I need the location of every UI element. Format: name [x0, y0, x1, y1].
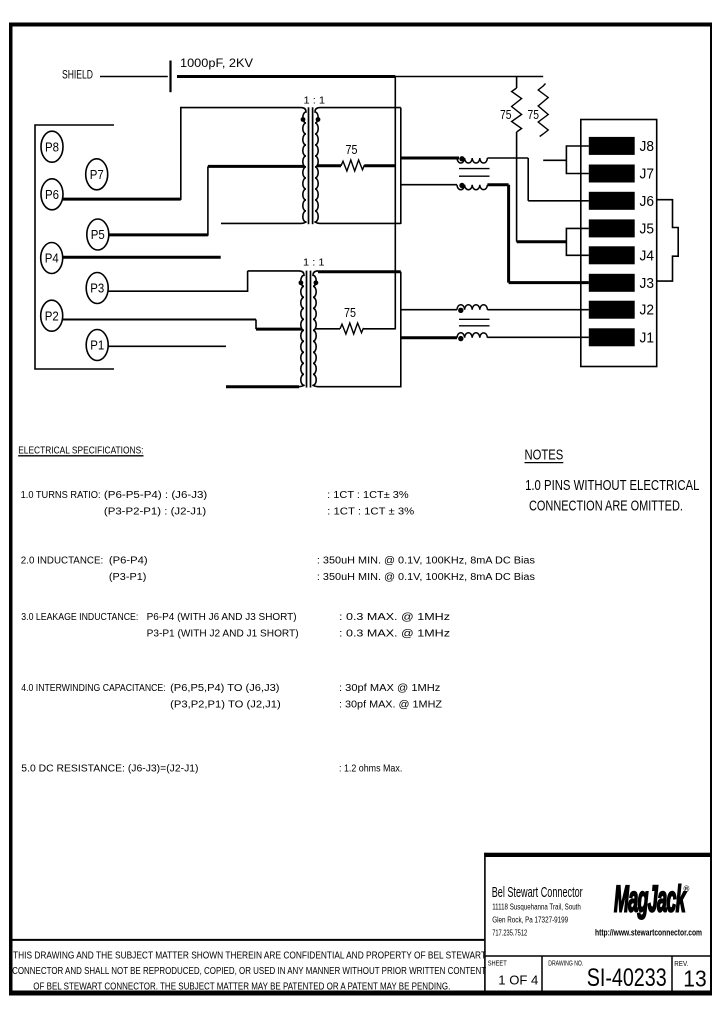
wire from SHIELD label	[100, 76, 168, 78]
svg-text:NOTES: NOTES	[525, 447, 564, 464]
resistor R3 75 ohm	[512, 88, 522, 132]
cable bracket around P pins	[35, 125, 114, 369]
svg-text:Bel Stewart Connector: Bel Stewart Connector	[492, 884, 583, 901]
svg-text:DRAWING NO.: DRAWING NO.	[548, 961, 583, 968]
label 1000pF 2KV	[180, 56, 253, 70]
wire P1 stub	[108, 345, 226, 347]
svg-text:1 OF 4: 1 OF 4	[498, 973, 538, 988]
svg-text:: 350uH MIN. @ 0.1V, 100KHz, 8: : 350uH MIN. @ 0.1V, 100KHz, 8mA DC Bias	[317, 556, 535, 567]
wire T1 loop to L1 bottom coil	[401, 184, 457, 186]
svg-text:SHIELD: SHIELD	[62, 68, 93, 82]
svg-text:1.0 TURNS RATIO:: 1.0 TURNS RATIO:	[21, 490, 101, 501]
svg-text:1 : 1: 1 : 1	[303, 257, 325, 269]
pin P6	[41, 179, 63, 210]
wire T1 center tap to R1	[317, 164, 341, 167]
svg-text:CONNECTION ARE OMITTED.: CONNECTION ARE OMITTED.	[529, 498, 683, 515]
wire T2 center tap to R2	[315, 328, 340, 330]
svg-text:P3: P3	[90, 281, 104, 296]
svg-text:ELECTRICAL SPECIFICATIONS:: ELECTRICAL SPECIFICATIONS:	[18, 445, 143, 457]
svg-text:P7: P7	[90, 167, 104, 182]
svg-text:J3: J3	[640, 276, 655, 292]
svg-text:: 30pf MAX. @ 1MHZ: : 30pf MAX. @ 1MHZ	[339, 700, 442, 711]
pin P3	[86, 273, 108, 304]
wire L2 top coil to J2	[487, 309, 588, 311]
svg-text:(P3,P2,P1) TO (J2,J1): (P3,P2,P1) TO (J2,J1)	[170, 700, 281, 711]
svg-text:SI-40233: SI-40233	[587, 964, 667, 992]
label R1 value 75	[346, 143, 358, 157]
pin J8	[589, 137, 654, 155]
svg-text:(P6,P5,P4) TO (J6,J3): (P6,P5,P4) TO (J6,J3)	[170, 683, 279, 694]
svg-text:P5: P5	[91, 227, 105, 242]
svg-text:75: 75	[528, 108, 540, 122]
resistor R4 75 ohm	[538, 84, 548, 137]
notes text	[525, 447, 700, 515]
wire shield vertical drop	[394, 77, 396, 329]
wire T1 loop to L1 top coil	[401, 157, 459, 160]
svg-text:13: 13	[683, 966, 706, 992]
svg-text:717.235.7512: 717.235.7512	[492, 929, 527, 938]
svg-text:SHEET: SHEET	[488, 961, 508, 968]
wire P3 to T2 primary top	[108, 271, 248, 292]
svg-text:P2: P2	[45, 308, 59, 323]
svg-text:(P3-P1): (P3-P1)	[109, 572, 146, 583]
pin P7	[86, 159, 108, 190]
choke L2 core	[459, 319, 490, 326]
choke L1 bottom coil	[457, 183, 487, 190]
pin P5	[87, 219, 109, 250]
wire P4 stub	[63, 256, 221, 259]
title block	[484, 853, 712, 995]
svg-text:THIS DRAWING AND THE SUBJECT M: THIS DRAWING AND THE SUBJECT MATTER SHOW…	[13, 950, 486, 961]
choke L2 top coil	[457, 305, 487, 313]
resistor R2 75 ohm	[340, 323, 363, 334]
svg-text:: 1CT : 1CT± 3%: : 1CT : 1CT± 3%	[327, 490, 409, 501]
choke L1 core	[459, 169, 490, 177]
svg-text:CONNECTOR AND SHALL NOT BE REP: CONNECTOR AND SHALL NOT BE REPRODUCED, C…	[12, 966, 486, 977]
svg-text:P3-P1 (WITH J2 AND J1 SHORT): P3-P1 (WITH J2 AND J1 SHORT)	[147, 629, 299, 640]
svg-text:3.0 LEAKAGE INDUCTANCE:: 3.0 LEAKAGE INDUCTANCE:	[21, 612, 138, 623]
svg-text:: 30pf MAX @ 1MHz: : 30pf MAX @ 1MHz	[339, 683, 440, 694]
pin J6	[589, 192, 654, 210]
wire P5 to T1 primary center tap	[108, 166, 304, 235]
choke L1 top coil	[457, 156, 487, 163]
svg-text:11118 Susquehanna Trail, South: 11118 Susquehanna Trail, South	[492, 903, 581, 912]
pin J1	[589, 328, 654, 346]
wire T1 secondary top lead	[320, 107, 401, 109]
bracket tying J8 J7	[566, 146, 588, 174]
wire L1 top coil to J6	[487, 158, 588, 201]
svg-text:: 0.3 MAX. @ 1MHz: : 0.3 MAX. @ 1MHz	[339, 612, 450, 623]
wire T2 secondary loop vertical	[400, 272, 402, 388]
bracket tying J5 J4	[566, 228, 588, 255]
svg-text:http://www.stewartconnector.co: http://www.stewartconnector.com	[595, 928, 702, 939]
svg-text:J6: J6	[640, 194, 655, 210]
wire L1 bottom coil to J3 thick	[487, 185, 588, 283]
node SHIELD label	[62, 68, 93, 82]
svg-text:J8: J8	[640, 139, 655, 155]
capacitor C1 1000pF 2KV plate	[169, 61, 171, 93]
wire R2 to shield vertical	[363, 328, 396, 330]
wire T2 primary bottom lead thick	[226, 385, 299, 388]
svg-text:P8: P8	[45, 139, 59, 154]
svg-text:75: 75	[344, 306, 356, 320]
wire R3 to J5 J4 bracket	[517, 132, 567, 242]
pin J5	[589, 219, 654, 237]
transformer T2	[248, 271, 319, 388]
svg-text:J7: J7	[640, 167, 655, 183]
svg-text:®: ®	[684, 885, 690, 894]
wire T1 secondary bottom lead	[320, 222, 401, 224]
label T1 ratio 1:1	[304, 95, 326, 107]
svg-text:P1: P1	[90, 338, 104, 353]
svg-text:: 350uH MIN. @ 0.1V, 100KHz, 8: : 350uH MIN. @ 0.1V, 100KHz, 8mA DC Bias	[317, 572, 535, 583]
svg-text:J5: J5	[640, 221, 655, 237]
wire T2 loop to L2 bottom coil thick	[402, 336, 458, 339]
svg-text:MagJack: MagJack	[614, 878, 687, 920]
wire R4 to J8 J7 bracket	[543, 159, 566, 161]
svg-text:P4: P4	[45, 251, 59, 266]
svg-text:: 1CT : 1CT ± 3%: : 1CT : 1CT ± 3%	[327, 507, 414, 518]
pin J3	[589, 274, 654, 292]
pin J2	[589, 301, 654, 319]
svg-text:P6: P6	[45, 187, 59, 202]
wire R1 to shield vertical	[365, 164, 396, 167]
pin P8	[41, 131, 63, 162]
wire shield bus thick	[177, 75, 395, 78]
label R4 value 75	[528, 108, 540, 122]
svg-text:: 1.2 ohms Max.: : 1.2 ohms Max.	[339, 764, 402, 775]
choke L2 bottom coil	[457, 333, 487, 342]
resistor R1 75 ohm	[341, 160, 364, 171]
svg-text:75: 75	[346, 143, 358, 157]
label T2 ratio 1:1	[303, 257, 325, 269]
svg-text:5.0 DC RESISTANCE: (J6-J3)=(J2: 5.0 DC RESISTANCE: (J6-J3)=(J2-J1)	[21, 764, 198, 775]
wire T2 secondary top lead thick	[318, 270, 401, 273]
pin P4	[41, 243, 63, 274]
svg-text:OF BEL STEWART CONNECTOR. THE: OF BEL STEWART CONNECTOR. THE SUBJECT MA…	[33, 981, 450, 992]
svg-text:Glen Rock, Pa 17327-9199: Glen Rock, Pa 17327-9199	[492, 916, 568, 925]
connector J1-J8 RJ45 jack body	[581, 120, 678, 367]
svg-text:P6-P4 (WITH J6 AND J3 SHORT): P6-P4 (WITH J6 AND J3 SHORT)	[147, 612, 297, 623]
electrical specifications text	[18, 445, 535, 775]
pin P1	[86, 330, 108, 361]
wire P2 to T2 primary center tap	[63, 320, 302, 330]
wire T2 loop to L2 top coil	[401, 309, 457, 311]
wire L2 bottom coil to J1	[487, 336, 588, 338]
svg-text:(P3-P2-P1) : (J2-J1): (P3-P2-P1) : (J2-J1)	[104, 507, 206, 518]
wire P6 to T1 primary top	[63, 107, 181, 200]
svg-text:1000pF, 2KV: 1000pF, 2KV	[180, 56, 253, 70]
wire T1 secondary loop vertical	[400, 108, 402, 224]
pin J4	[589, 246, 654, 264]
wire T2 secondary bottom lead	[318, 386, 401, 388]
svg-text:(P6-P5-P4) : (J6-J3): (P6-P5-P4) : (J6-J3)	[104, 490, 207, 501]
wire shield bus to R3	[516, 77, 518, 89]
svg-text:: 0.3 MAX. @ 1MHz: : 0.3 MAX. @ 1MHz	[339, 629, 450, 640]
pin P2	[41, 300, 63, 331]
svg-text:75: 75	[500, 108, 512, 122]
label R2 value 75	[344, 306, 356, 320]
svg-text:4.0 INTERWINDING CAPACITANCE:: 4.0 INTERWINDING CAPACITANCE:	[21, 683, 165, 694]
svg-text:1 : 1: 1 : 1	[304, 95, 326, 107]
svg-text:J2: J2	[640, 303, 655, 319]
svg-text:J4: J4	[640, 248, 655, 264]
pin J7	[589, 165, 654, 183]
svg-text:J1: J1	[640, 330, 655, 346]
disclaimer box	[12, 940, 486, 992]
label R3 value 75	[500, 108, 512, 122]
svg-text:2.0 INDUCTANCE:: 2.0 INDUCTANCE:	[21, 556, 103, 567]
wire shield bus thin	[395, 76, 543, 78]
svg-text:(P6-P4): (P6-P4)	[109, 556, 148, 567]
transformer T1	[181, 107, 321, 224]
svg-text:1.0 PINS WITHOUT ELECTRICAL: 1.0 PINS WITHOUT ELECTRICAL	[525, 477, 699, 494]
